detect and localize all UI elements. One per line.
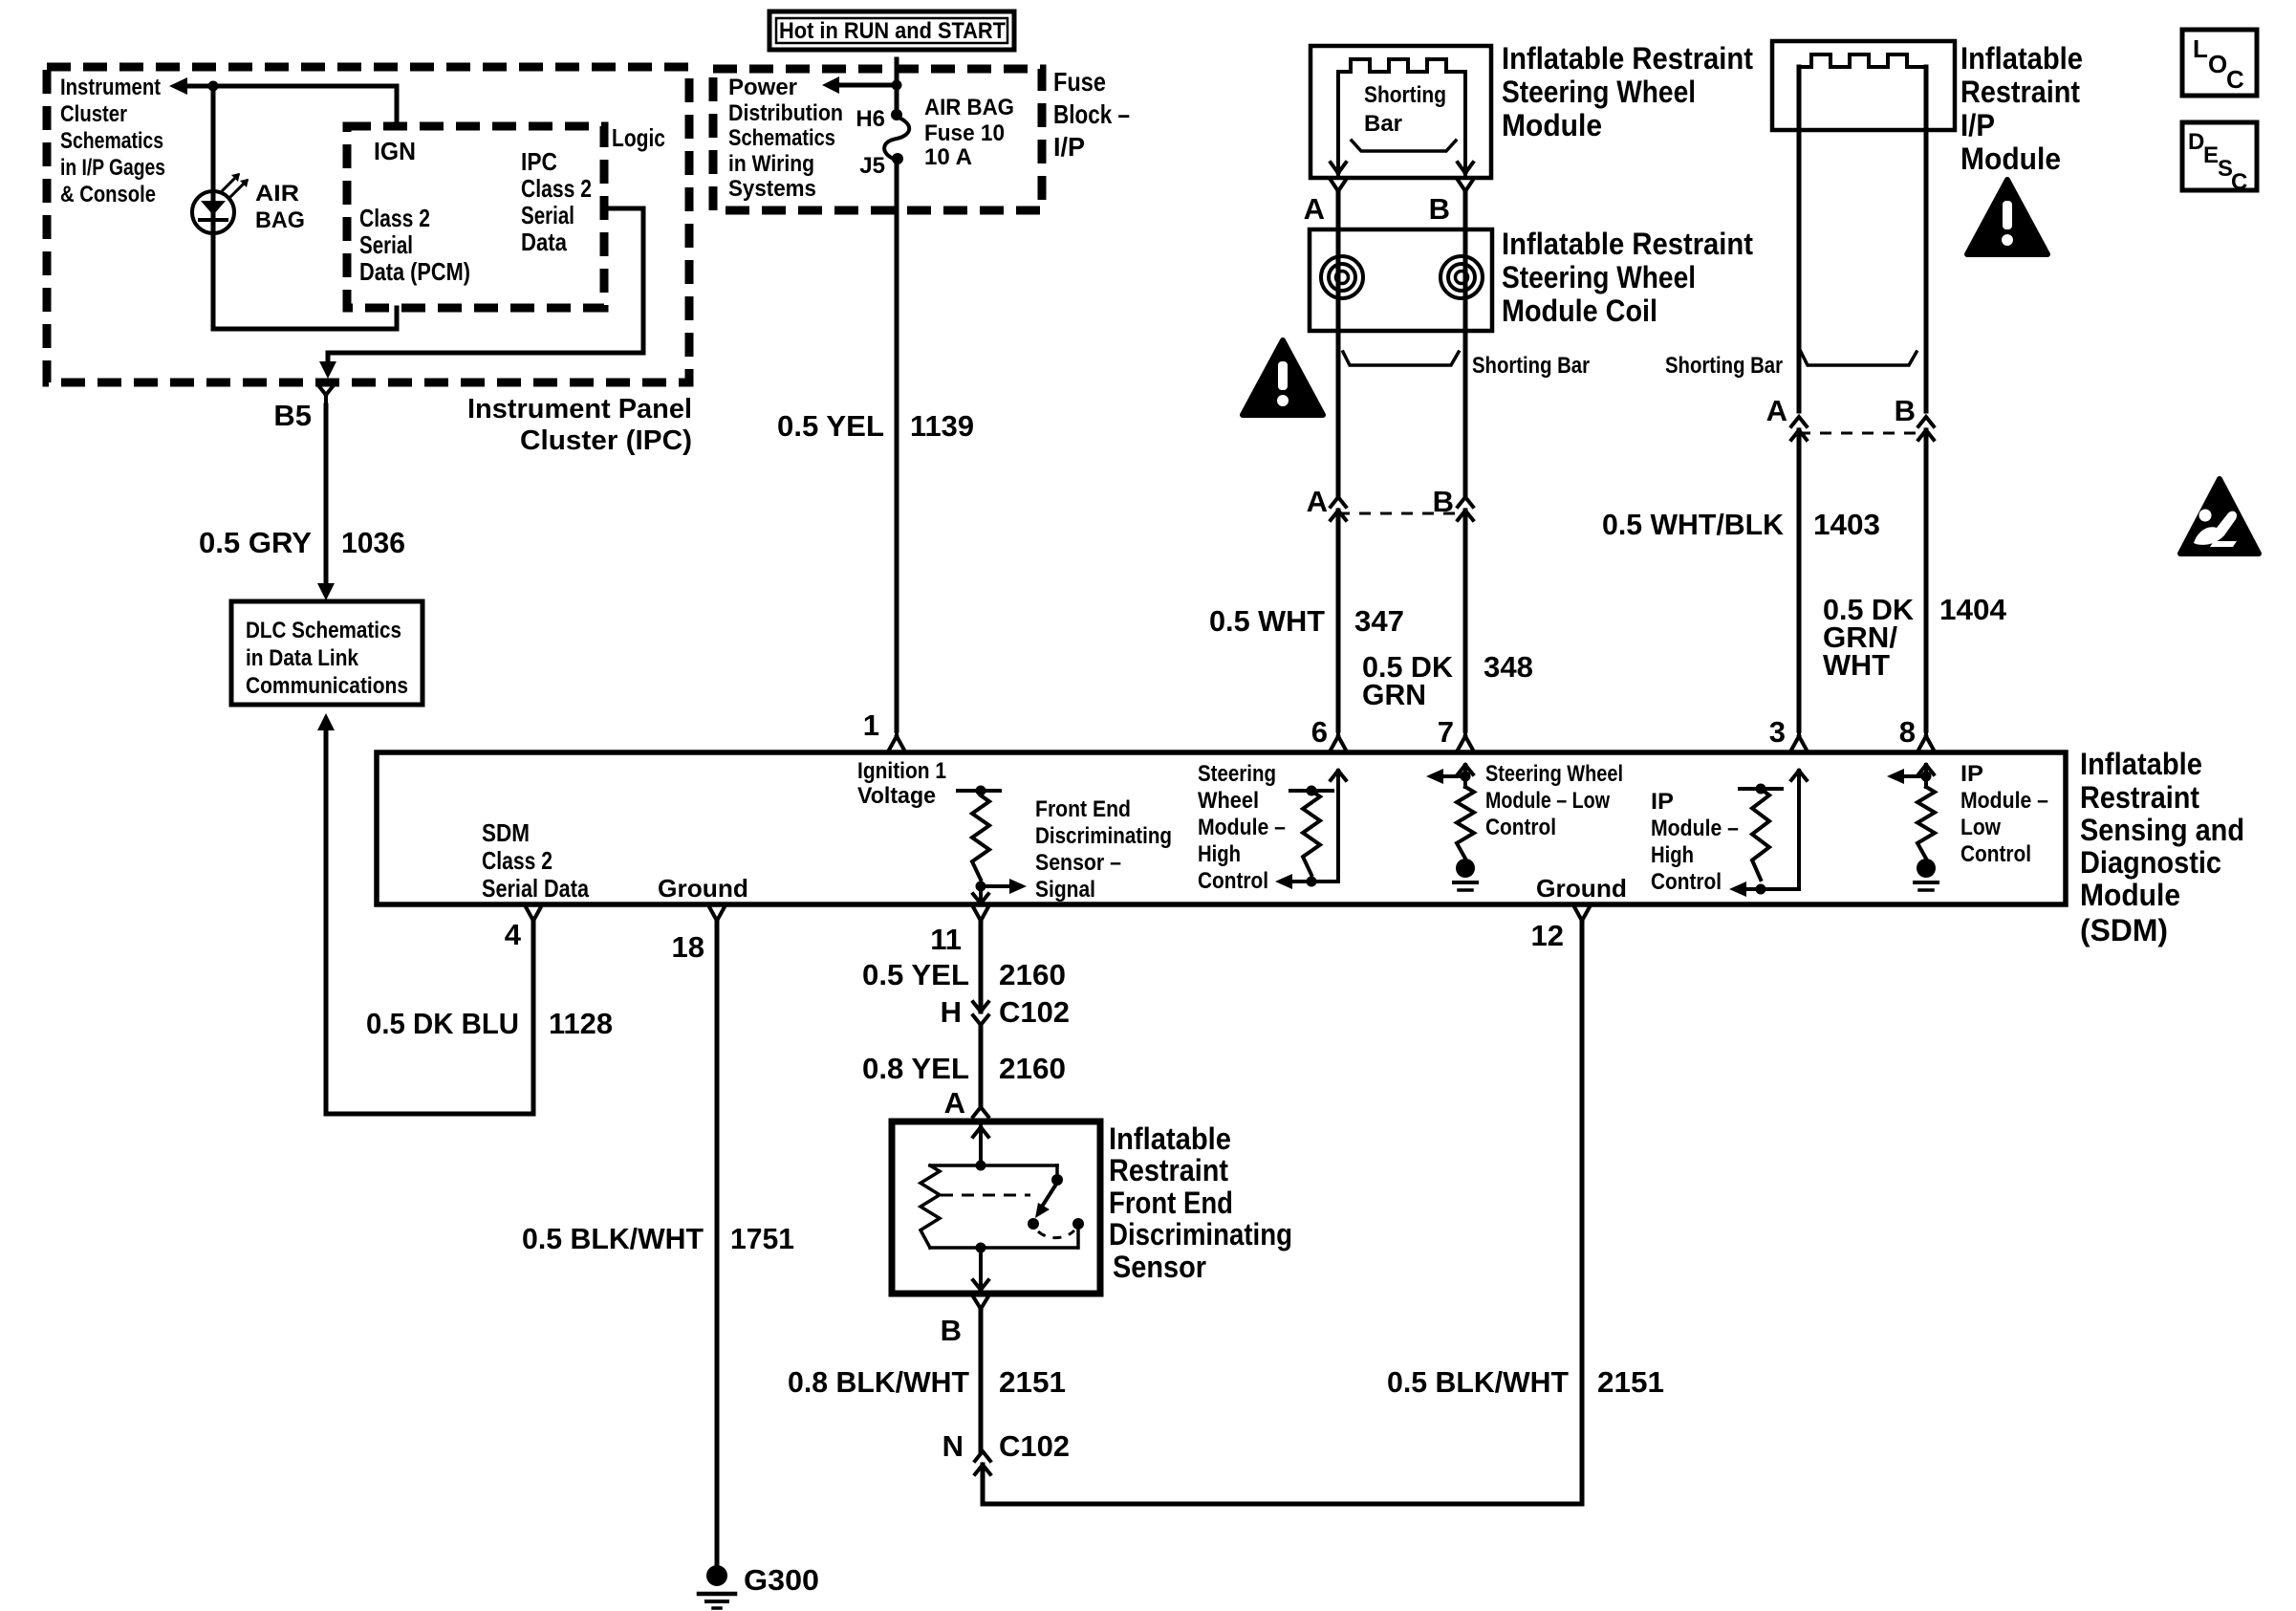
pin labels A B xyxy=(1304,192,1450,226)
svg-text:Control: Control xyxy=(1651,869,1722,895)
svg-text:1751: 1751 xyxy=(730,1222,794,1255)
SWM squib wires with down arrows xyxy=(1331,72,1346,174)
inflatable restraint I/P module box xyxy=(1772,41,1955,130)
svg-text:Module Coil: Module Coil xyxy=(1502,294,1657,328)
logic dashed box xyxy=(347,126,604,308)
svg-text:Steering Wheel: Steering Wheel xyxy=(1502,260,1696,294)
svg-text:Communications: Communications xyxy=(246,673,408,699)
connector pin 3 (half-Y) xyxy=(1791,730,1807,751)
connector A of FEDS (chevron) xyxy=(973,1107,988,1117)
SWM low control ground xyxy=(1456,859,1475,878)
arrow right to Signal label xyxy=(981,884,1009,888)
svg-text:Steering Wheel: Steering Wheel xyxy=(1502,75,1696,109)
lamp light rays xyxy=(223,175,247,196)
wire down to AIR BAG lamp xyxy=(211,86,216,329)
svg-text:Serial: Serial xyxy=(359,230,413,259)
in-line connector A (I/P) xyxy=(1791,417,1807,440)
junction dot xyxy=(208,81,219,92)
svg-text:1128: 1128 xyxy=(549,1007,613,1040)
svg-text:Schematics: Schematics xyxy=(728,125,835,151)
svg-text:0.5 YEL: 0.5 YEL xyxy=(777,409,884,443)
in-line connector B (I/P) xyxy=(1918,417,1934,440)
svg-text:N: N xyxy=(942,1429,964,1463)
svg-text:Inflatable: Inflatable xyxy=(2080,747,2202,781)
in-line connector A (steering wheel) xyxy=(1331,497,1346,520)
svg-text:2151: 2151 xyxy=(1597,1365,1664,1399)
svg-text:Signal: Signal xyxy=(1035,877,1095,903)
svg-text:Serial Data: Serial Data xyxy=(482,874,589,903)
arrow into DLC box xyxy=(317,583,335,600)
label Front End Discriminating Sensor - Signal xyxy=(1035,796,1172,903)
svg-text:Shorting: Shorting xyxy=(1364,82,1446,108)
svg-text:7: 7 xyxy=(1438,715,1454,749)
FEDS switch arm with arrow xyxy=(1042,1186,1055,1207)
svg-text:Inflatable Restraint: Inflatable Restraint xyxy=(1502,227,1753,261)
wire 1751 xyxy=(715,922,720,1565)
svg-text:Ground: Ground xyxy=(658,874,748,903)
svg-text:Module –: Module – xyxy=(1651,816,1739,841)
label Inflatable Restraint I/P Module xyxy=(1960,41,2083,176)
label 0.5 GRY 1036 xyxy=(199,526,405,559)
label 0.5 DK GRN 348 xyxy=(1362,650,1533,711)
svg-text:A: A xyxy=(1304,192,1325,226)
svg-text:High: High xyxy=(1198,841,1241,867)
FEDS sensor resistor xyxy=(921,1165,940,1248)
warning triangle (I/P) xyxy=(1967,180,2047,254)
svg-text:2160: 2160 xyxy=(999,958,1066,991)
SWM low control left arrow xyxy=(1443,774,1465,778)
svg-text:AIR BAG: AIR BAG xyxy=(924,95,1014,120)
svg-text:Restraint: Restraint xyxy=(2080,780,2199,815)
connector pin 18 (half-Y) xyxy=(709,907,725,922)
svg-text:Class 2: Class 2 xyxy=(521,174,592,203)
label DLC Schematics in Data Link Communications xyxy=(246,618,408,699)
label 0.5 BLK/WHT 1751 xyxy=(522,1222,794,1255)
svg-text:4: 4 xyxy=(505,918,522,951)
junction dot xyxy=(892,80,902,91)
steering wheel module coil box xyxy=(1310,229,1492,331)
wire: lamp feed xyxy=(187,84,397,89)
label 0.5 DK BLU 1128 xyxy=(366,1007,613,1040)
connector pin 1 (half-Y) xyxy=(889,730,904,751)
label Inflatable Restraint Steering Wheel Module Coil xyxy=(1502,227,1753,328)
label Inflatable Restraint Steering Wheel Module xyxy=(1502,41,1753,142)
svg-text:Module: Module xyxy=(1502,108,1602,142)
svg-text:Block –: Block – xyxy=(1053,99,1130,129)
label 0.5 BLK/WHT 2151 (right) xyxy=(1387,1365,1664,1399)
svg-text:348: 348 xyxy=(1484,650,1533,684)
svg-text:Data: Data xyxy=(521,228,567,256)
svg-text:6: 6 xyxy=(1311,715,1328,749)
svg-text:Steering Wheel: Steering Wheel xyxy=(1485,761,1623,787)
label AIR BAG Fuse 10 10 A xyxy=(924,95,1014,170)
svg-text:A: A xyxy=(944,1086,965,1120)
svg-text:A: A xyxy=(1766,394,1787,427)
svg-text:L: L xyxy=(2193,34,2208,63)
I/P squib wires xyxy=(1799,67,1926,411)
svg-text:C102: C102 xyxy=(999,1429,1070,1463)
svg-text:Logic: Logic xyxy=(612,123,665,152)
label SDM Class 2 Serial Data xyxy=(482,818,589,903)
svg-text:0.5 BLK/WHT: 0.5 BLK/WHT xyxy=(522,1222,704,1255)
SDM box xyxy=(377,752,2066,904)
FEDS switch fixed contact xyxy=(1055,1165,1059,1175)
svg-text:in Data Link: in Data Link xyxy=(246,645,359,671)
svg-text:BAG: BAG xyxy=(255,207,305,233)
wire 1128 route to pin 4 xyxy=(326,729,533,1114)
svg-text:B: B xyxy=(941,1314,962,1347)
svg-text:Distribution: Distribution xyxy=(728,100,843,126)
svg-text:SDM: SDM xyxy=(482,818,530,847)
wire from hot box xyxy=(895,59,899,115)
wire 348 xyxy=(1463,511,1468,730)
svg-text:Power: Power xyxy=(728,75,797,100)
svg-text:Shorting Bar: Shorting Bar xyxy=(1472,353,1590,379)
svg-text:Fuse: Fuse xyxy=(1053,67,1106,97)
svg-text:0.5 WHT/BLK: 0.5 WHT/BLK xyxy=(1602,508,1785,541)
svg-text:DLC Schematics: DLC Schematics xyxy=(246,618,401,643)
svg-text:Module –: Module – xyxy=(1198,815,1286,840)
in-line connector N C102 xyxy=(975,1451,990,1474)
svg-text:2151: 2151 xyxy=(999,1365,1066,1399)
fuse block dashed box xyxy=(713,69,1042,210)
svg-text:IPC: IPC xyxy=(521,147,557,176)
inflatable restraint front end discriminating sensor box xyxy=(892,1121,1100,1294)
LOC box xyxy=(2182,30,2257,96)
svg-text:3: 3 xyxy=(1769,715,1786,749)
wire 2160 lower xyxy=(979,1025,984,1105)
svg-text:Restraint: Restraint xyxy=(1960,75,2080,109)
pin labels H6 J5 xyxy=(856,106,885,179)
svg-text:C: C xyxy=(2226,65,2244,94)
svg-text:Sensor: Sensor xyxy=(1113,1250,1206,1284)
svg-text:Module – Low: Module – Low xyxy=(1485,788,1610,814)
svg-text:Discriminating: Discriminating xyxy=(1035,823,1172,849)
wire 2151 (0.5) bottom run xyxy=(983,922,1582,1504)
IP low control resistor xyxy=(1917,787,1935,859)
svg-text:Data (PCM): Data (PCM) xyxy=(359,257,470,286)
svg-text:0.5 GRY: 0.5 GRY xyxy=(199,526,312,559)
label 0.5 WHT 347 xyxy=(1209,604,1404,638)
svg-text:D: D xyxy=(2188,129,2204,155)
svg-text:Fuse 10: Fuse 10 xyxy=(924,120,1005,146)
shorting bar bracket (I/P) xyxy=(1801,352,1917,365)
svg-text:I/P: I/P xyxy=(1053,132,1085,162)
svg-text:O: O xyxy=(2208,50,2227,78)
label 0.8 BLK/WHT 2151 xyxy=(788,1365,1066,1399)
FEDS switch closed-position contact xyxy=(1072,1218,1084,1230)
connector pin 7 (half-Y) xyxy=(1458,730,1473,751)
svg-text:Serial: Serial xyxy=(521,201,574,229)
label 0.5 YEL 2160 xyxy=(862,958,1066,991)
FEDS switch moving contact xyxy=(1028,1218,1039,1230)
svg-text:1139: 1139 xyxy=(910,409,974,443)
shorting bar bracket below coil xyxy=(1343,352,1459,365)
wire 347 xyxy=(1336,511,1341,730)
svg-text:8: 8 xyxy=(1899,715,1916,749)
arrow to instrument cluster schematics xyxy=(169,77,187,95)
label Fuse Block - I/P xyxy=(1053,67,1130,162)
FEDS switch travel dashed arc xyxy=(1038,1230,1074,1238)
svg-text:Inflatable Restraint: Inflatable Restraint xyxy=(1502,41,1753,76)
SWM low control resistor xyxy=(1457,787,1474,859)
label 0.5 YEL 1139 xyxy=(777,409,974,443)
svg-text:GRN: GRN xyxy=(1362,678,1426,711)
svg-text:Module: Module xyxy=(1960,142,2061,176)
svg-text:Class 2: Class 2 xyxy=(359,204,430,232)
IP module high control: pin 3 arrow and line xyxy=(1791,771,1807,889)
hot in RUN and START box xyxy=(769,11,1014,50)
svg-text:Low: Low xyxy=(1960,815,2001,840)
wire: IPC serial data out to B5 xyxy=(328,208,643,363)
pin labels A B (inline) xyxy=(1307,485,1454,518)
svg-text:2160: 2160 xyxy=(999,1052,1066,1085)
IP low control ground xyxy=(1917,859,1936,878)
svg-text:Class 2: Class 2 xyxy=(482,846,552,875)
pin labels 6 7 xyxy=(1311,715,1454,749)
wire B into coil xyxy=(1463,191,1468,229)
label Steering Wheel Module - High Control xyxy=(1198,761,1286,894)
svg-text:H: H xyxy=(941,995,962,1029)
fuse 10 element xyxy=(891,109,902,120)
svg-text:IP: IP xyxy=(1960,761,1983,787)
svg-text:C102: C102 xyxy=(999,995,1070,1029)
wire 1036 xyxy=(324,405,329,585)
svg-text:WHT: WHT xyxy=(1823,648,1890,682)
svg-text:E: E xyxy=(2203,142,2219,168)
svg-text:in Wiring: in Wiring xyxy=(728,151,814,177)
warning triangle (seat icon) xyxy=(2180,479,2259,554)
pin labels 3 8 xyxy=(1769,715,1916,749)
svg-text:B: B xyxy=(1429,192,1450,226)
SWM connector castellation xyxy=(1338,59,1465,72)
label 0.8 YEL 2160 xyxy=(862,1052,1066,1085)
svg-text:0.8 BLK/WHT: 0.8 BLK/WHT xyxy=(788,1365,969,1399)
steering wheel module low control: pin 7 arrow xyxy=(1458,765,1473,787)
FEDS bottom rail xyxy=(930,1246,1077,1250)
coil A spiral xyxy=(1321,256,1363,298)
svg-text:0.5 DK BLU: 0.5 DK BLU xyxy=(366,1007,519,1040)
svg-text:Diagnostic: Diagnostic xyxy=(2080,845,2221,880)
svg-text:0.5 WHT: 0.5 WHT xyxy=(1209,604,1325,638)
svg-text:1036: 1036 xyxy=(341,526,405,559)
svg-text:347: 347 xyxy=(1354,604,1404,638)
label: Instrument Cluster Schematics in I/P Gages & Console xyxy=(60,75,165,207)
svg-text:Steering: Steering xyxy=(1198,761,1276,787)
SWM high control bottom link xyxy=(1292,880,1338,883)
label Inflatable Restraint Sensing and Diagnostic Module (SDM) xyxy=(2080,747,2244,947)
in-line connector B (steering wheel) xyxy=(1458,497,1473,520)
in-line connector H C102 xyxy=(973,1002,988,1025)
AIR BAG indicator lamp (LED symbol) xyxy=(192,191,234,233)
connector pin 6 (half-Y) xyxy=(1331,730,1346,751)
svg-text:1403: 1403 xyxy=(1813,508,1880,541)
svg-text:12: 12 xyxy=(1531,919,1564,952)
wire 1403 xyxy=(1797,430,1802,730)
svg-text:IGN: IGN xyxy=(374,137,416,165)
label Class 2 Serial Data (PCM) xyxy=(359,204,470,286)
svg-text:High: High xyxy=(1651,842,1694,868)
wire A into coil xyxy=(1336,191,1341,229)
FEDS top rail xyxy=(930,1164,1057,1167)
connector pin 12 (half-Y) xyxy=(1574,907,1590,922)
svg-text:Bar: Bar xyxy=(1364,111,1402,137)
svg-text:Module –: Module – xyxy=(1960,788,2048,814)
dashed connector link xyxy=(1338,512,1465,515)
svg-text:J5: J5 xyxy=(859,153,885,179)
svg-text:H6: H6 xyxy=(856,106,885,132)
label IP Module - High Control xyxy=(1651,789,1739,895)
instrument panel cluster (IPC) dashed box xyxy=(47,67,689,382)
svg-text:in I/P Gages: in I/P Gages xyxy=(60,155,165,181)
svg-text:Sensing and: Sensing and xyxy=(2080,813,2244,847)
SWM high control resistor xyxy=(1290,789,1332,793)
svg-text:Systems: Systems xyxy=(728,176,816,202)
pin labels A B (I/P inline) xyxy=(1766,394,1916,427)
FEDS pull-up resistor xyxy=(958,789,1000,793)
svg-text:(SDM): (SDM) xyxy=(2080,913,2168,947)
svg-text:A: A xyxy=(1307,485,1328,518)
label IPC Class 2 Serial Data xyxy=(521,147,592,256)
label 0.5 DK GRN/ WHT 1404 xyxy=(1823,593,2007,682)
FEDS return with down arrow xyxy=(973,1248,988,1290)
connector pin 8 (half-Y) xyxy=(1918,730,1934,751)
FEDS internal feed with up arrow xyxy=(973,1121,988,1165)
svg-text:Ignition 1: Ignition 1 xyxy=(857,758,946,784)
svg-text:& Console: & Console xyxy=(60,182,156,207)
svg-text:10 A: 10 A xyxy=(924,144,972,170)
svg-text:Front End: Front End xyxy=(1109,1186,1233,1220)
svg-text:Control: Control xyxy=(1198,868,1268,894)
svg-text:Ground: Ground xyxy=(1536,874,1627,903)
wire 2160 upper xyxy=(979,922,984,1012)
I/P connector castellation xyxy=(1799,54,1926,67)
label AIR BAG xyxy=(255,181,305,233)
svg-text:Restraint: Restraint xyxy=(1109,1153,1228,1187)
connector pin 4 (half-Y) xyxy=(526,907,541,922)
label Power Distribution Schematics in Wiring Systems xyxy=(728,75,843,202)
wire 1139 xyxy=(895,159,899,730)
arrow up from serial data return xyxy=(317,713,335,730)
svg-text:Control: Control xyxy=(1485,815,1556,840)
svg-text:0.5 YEL: 0.5 YEL xyxy=(862,958,969,991)
label Inflatable Restraint Front End Discriminating Sensor xyxy=(1109,1121,1292,1284)
label 0.5 WHT/BLK 1403 xyxy=(1602,508,1880,541)
inflatable restraint steering wheel module box xyxy=(1310,46,1491,178)
label IP Module - Low Control xyxy=(1960,761,2048,867)
connector A below SWM (half-Y) xyxy=(1331,180,1346,191)
svg-text:Instrument Panel: Instrument Panel xyxy=(467,394,692,425)
coil B spiral xyxy=(1440,256,1483,298)
svg-text:C: C xyxy=(2231,169,2247,195)
wires through coil box xyxy=(1338,229,1465,495)
svg-text:Hot in RUN and START: Hot in RUN and START xyxy=(779,18,1006,44)
svg-text:Instrument: Instrument xyxy=(60,75,161,100)
svg-text:0.8 YEL: 0.8 YEL xyxy=(862,1052,969,1085)
steering wheel module high control: pin 6 arrow xyxy=(1331,771,1346,882)
svg-text:AIR: AIR xyxy=(255,181,299,207)
label Steering Wheel Module - Low Control xyxy=(1485,761,1623,840)
IP high control resistor xyxy=(1740,787,1782,791)
warning triangle (left) xyxy=(1243,340,1323,415)
svg-text:B5: B5 xyxy=(273,399,312,432)
DLC schematics box xyxy=(231,601,422,705)
svg-text:Control: Control xyxy=(1960,841,2031,867)
svg-text:Inflatable: Inflatable xyxy=(1960,41,2083,76)
shorting bar bracket inside SWM xyxy=(1352,141,1456,151)
svg-text:Shorting Bar: Shorting Bar xyxy=(1665,353,1783,379)
svg-text:18: 18 xyxy=(672,930,704,964)
connector pin 11 (half-Y) xyxy=(973,907,988,922)
svg-text:Discriminating: Discriminating xyxy=(1109,1217,1292,1252)
IP high control bottom link xyxy=(1746,887,1799,891)
svg-text:B: B xyxy=(1895,394,1916,427)
svg-text:Cluster (IPC): Cluster (IPC) xyxy=(520,425,692,456)
svg-text:Voltage: Voltage xyxy=(857,783,936,809)
label Instrument Panel Cluster (IPC) xyxy=(467,394,692,456)
ground G300 xyxy=(706,1565,727,1586)
svg-text:I/P: I/P xyxy=(1960,108,1995,142)
svg-text:IP: IP xyxy=(1651,789,1674,815)
svg-text:1: 1 xyxy=(863,708,879,742)
svg-text:G300: G300 xyxy=(744,1563,819,1597)
DESC box xyxy=(2182,122,2257,190)
IP module low control: pin 8 arrow xyxy=(1918,765,1934,787)
IP low control left arrow xyxy=(1904,774,1926,778)
wire 1404 xyxy=(1924,430,1929,730)
connector B below SWM (half-Y) xyxy=(1458,180,1473,191)
wire: lamp return to logic xyxy=(213,86,397,329)
svg-text:11: 11 xyxy=(930,923,962,956)
svg-text:Schematics: Schematics xyxy=(60,128,163,154)
FEDS signal down arrow out pin 11 xyxy=(973,886,988,903)
svg-text:Front End: Front End xyxy=(1035,796,1131,822)
svg-text:Inflatable: Inflatable xyxy=(1109,1121,1231,1156)
arrow to power distribution xyxy=(839,83,897,88)
svg-text:1404: 1404 xyxy=(1939,593,2007,626)
arrow down to IPC box edge xyxy=(319,361,336,379)
label Ignition 1 Voltage xyxy=(857,758,946,809)
label Shorting Bar (inside SWM) xyxy=(1364,82,1446,137)
svg-text:Wheel: Wheel xyxy=(1198,788,1259,814)
svg-text:0.5 BLK/WHT: 0.5 BLK/WHT xyxy=(1387,1365,1569,1399)
wire 2151 (0.8) xyxy=(979,1309,984,1451)
dashed connector link (I/P) xyxy=(1799,432,1926,435)
connector B5 (half-Y) xyxy=(318,385,334,405)
svg-text:Module: Module xyxy=(2080,878,2180,912)
svg-text:Sensor –: Sensor – xyxy=(1035,850,1121,876)
connector B of FEDS (half-Y) xyxy=(973,1296,988,1309)
svg-text:Cluster: Cluster xyxy=(60,101,127,127)
FEDS internal dashed link xyxy=(941,1194,1030,1197)
svg-text:B: B xyxy=(1433,485,1454,518)
